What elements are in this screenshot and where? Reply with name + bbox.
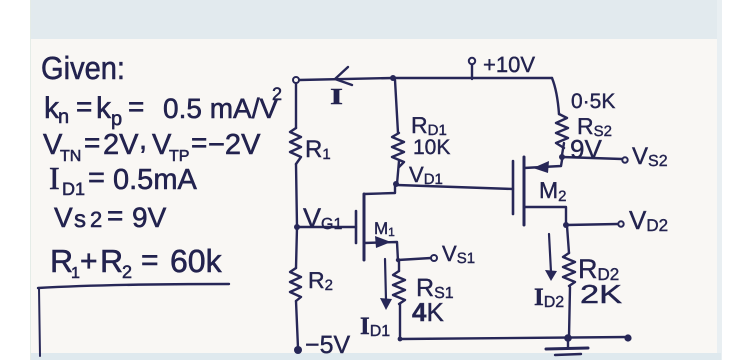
svg-text:2: 2 [90,207,102,232]
svg-text:I: I [330,84,343,109]
svg-text:2V: 2V [103,129,139,161]
svg-text:=: = [128,91,144,122]
svg-text:VD1: VD1 [409,162,443,188]
svg-text:=: = [141,244,159,277]
svg-text:−5V: −5V [305,331,351,359]
svg-text:4K: 4K [412,297,444,327]
svg-text:+: + [80,245,98,278]
svg-text:10K: 10K [413,136,450,159]
svg-text:I: I [49,160,60,196]
svg-text:M2: M2 [539,177,567,205]
svg-text:9V: 9V [132,202,167,233]
svg-text:R2: R2 [308,267,333,294]
svg-text:Given:: Given: [41,50,125,86]
svg-text:2K: 2K [580,279,623,309]
svg-text:=: = [191,127,207,158]
svg-text:0.5 mA/V: 0.5 mA/V [163,93,278,124]
svg-text:=: = [107,200,123,231]
svg-text:TP: TP [169,148,189,165]
svg-text:VS2: VS2 [632,143,668,170]
svg-text:2: 2 [122,262,132,282]
svg-text:V: V [54,202,73,233]
svg-text:RD1: RD1 [411,112,447,139]
svg-text:1: 1 [71,265,80,282]
svg-text:,: , [139,124,147,156]
svg-text:=: = [84,127,100,158]
svg-text:−2V: −2V [208,129,261,161]
svg-text:0·5K: 0·5K [571,90,615,113]
svg-text:k: k [96,92,112,125]
svg-text:ID1: ID1 [360,313,390,340]
svg-text:9V: 9V [570,134,602,164]
svg-text:p: p [111,108,122,130]
svg-text:2: 2 [272,84,282,104]
svg-text:s: s [74,206,86,233]
svg-text:R: R [100,243,123,279]
svg-text:R1: R1 [305,136,331,163]
svg-text:M1: M1 [374,219,395,239]
svg-text:R: R [50,243,73,279]
svg-text:n: n [58,106,69,128]
svg-text:+10V: +10V [483,52,535,77]
svg-text:TN: TN [60,148,81,165]
svg-text:ID2: ID2 [534,284,564,311]
svg-text:VS1: VS1 [442,241,475,267]
svg-text:=: = [76,91,92,122]
svg-text:D1: D1 [62,179,85,199]
svg-text:0.5mA: 0.5mA [113,164,197,196]
svg-text:60k: 60k [170,243,223,279]
svg-text:VG1: VG1 [303,203,342,233]
svg-text:=: = [88,162,105,194]
svg-text:VD2: VD2 [629,205,668,235]
